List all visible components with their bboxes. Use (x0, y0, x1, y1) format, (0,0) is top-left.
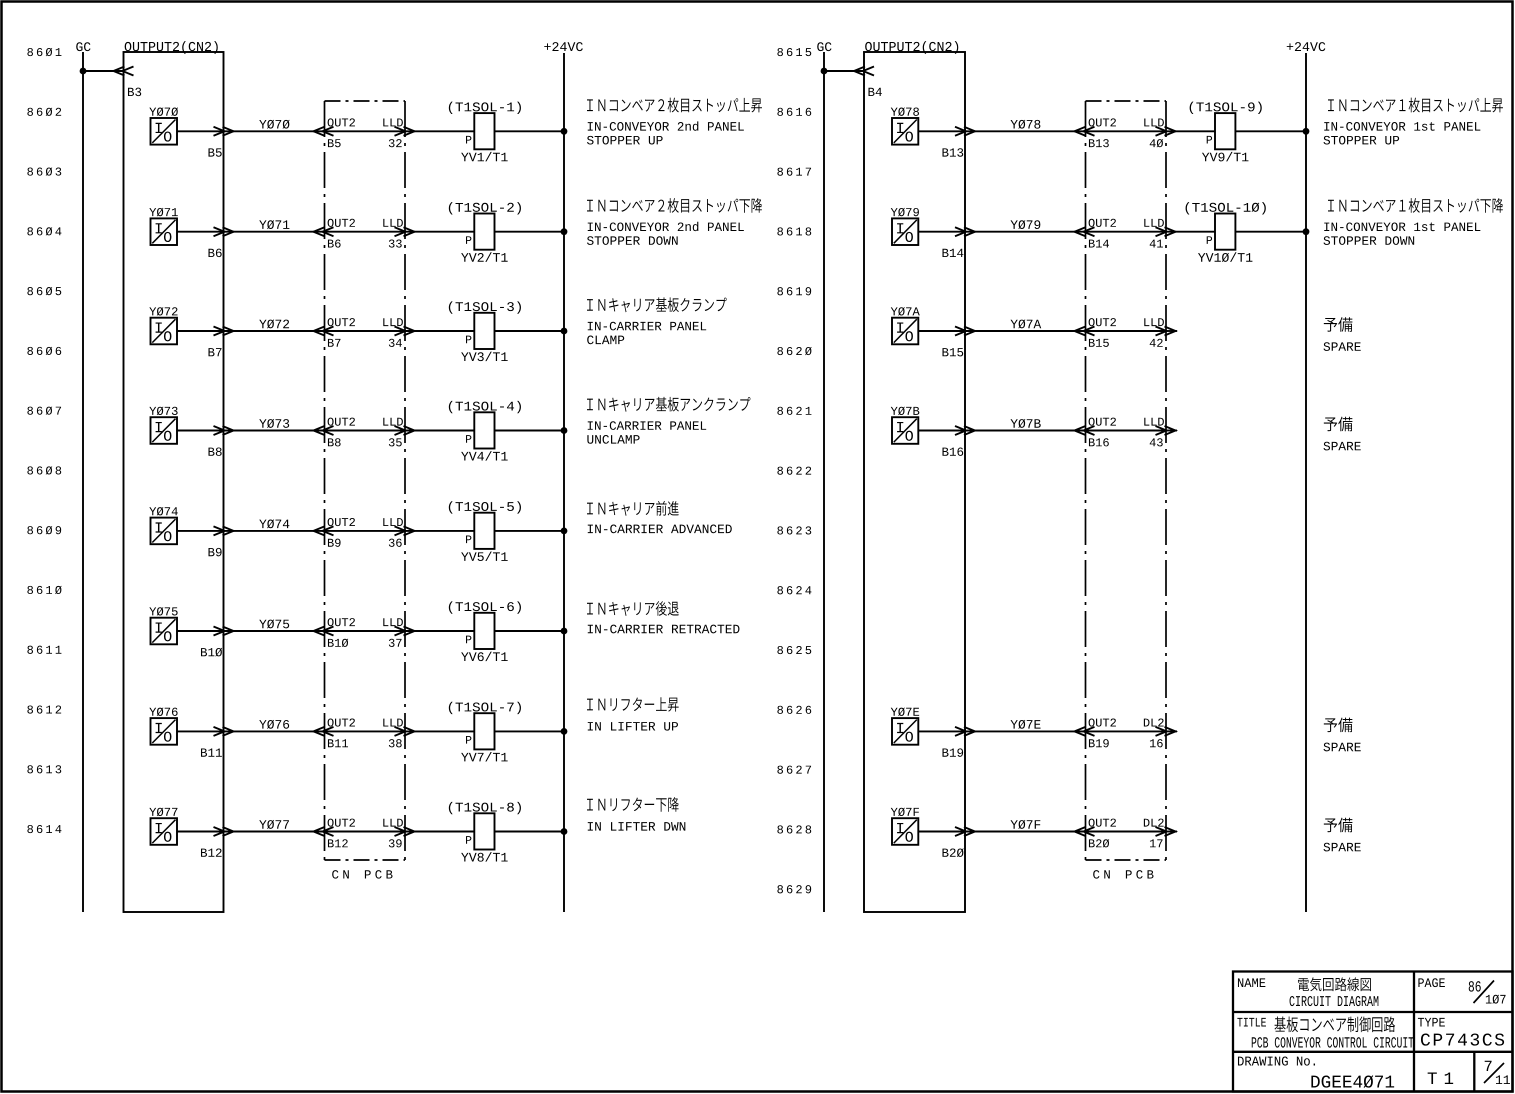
net label Y076 (259, 720, 266, 728)
output module Y07B (891, 407, 920, 444)
net label Y071 (259, 220, 266, 228)
CN PCB pin OUT2/B9 (314, 518, 355, 547)
output module Y074 (149, 507, 177, 544)
solenoid YV1/T1 (T1SOL-1) (449, 102, 521, 162)
line number column 8601-8614 (27, 48, 61, 833)
connector pin B14 arrow (942, 227, 975, 257)
net label Y070 (259, 120, 266, 128)
label IN LIFTER UP (Y076) (587, 697, 679, 730)
title block TYPE cell (1418, 1018, 1504, 1046)
net label Y07A (1010, 320, 1017, 328)
wire net Y073 to CN PCB (224, 430, 325, 432)
line number column 8615-8629 (777, 48, 811, 893)
wire LLD to solenoid YV2/T1 (405, 231, 474, 233)
+24VC rail (right) (1287, 42, 1326, 912)
CN PCB pin OUT2/B8 (314, 418, 355, 447)
net label Y07B (1010, 419, 1017, 427)
CN PCB pin OUT2/B16 (1075, 418, 1116, 447)
output module Y075 (149, 607, 177, 644)
CN PCB pin LLD/42 (1144, 318, 1175, 347)
connector pin B15 arrow (942, 327, 975, 357)
wire net Y072 to CN PCB (224, 330, 325, 332)
junction node YV3/T1 rail (561, 328, 568, 335)
net GC label (right) (817, 42, 831, 51)
wire net Y07B to CN PCB (965, 430, 1086, 432)
CN PCB pin OUT2/B12 (314, 819, 355, 848)
wire inside CN PCB row Y07A (1086, 330, 1167, 332)
net label Y072 (259, 320, 266, 328)
CN PCB pin OUT2/B6 (314, 219, 355, 248)
connector OUTPUT2(CN2) (left) (124, 41, 224, 912)
wire inside CN PCB row Y07F (1086, 831, 1167, 833)
wire net Y077 to CN PCB (224, 831, 325, 833)
net GC label (left) (76, 42, 90, 51)
wire LLD to solenoid YV10/T1 (1166, 231, 1215, 233)
wire Y077 module to connector edge (177, 831, 224, 833)
solenoid YV9/T1 (T1SOL-9) (1190, 102, 1262, 162)
junction node YV5/T1 rail (561, 528, 568, 535)
label IN-CARRIER RETRACTED (Y075) (587, 601, 739, 633)
wire Y07B module to connector edge (918, 430, 965, 432)
wire net Y074 to CN PCB (224, 530, 325, 532)
+24VC rail (left) (544, 42, 583, 912)
CN PCB pin OUT2/B13 (1075, 118, 1116, 147)
wire inside CN PCB row Y075 (325, 630, 406, 632)
wire net Y079 to CN PCB (965, 231, 1086, 233)
wire inside CN PCB row Y072 (325, 330, 406, 332)
label IN-CONVEYOR 1st PANEL (Y079) (1323, 198, 1503, 245)
CN PCB pin LLD/43 (1144, 418, 1175, 447)
connector pin B13 arrow (942, 127, 975, 157)
connector pin B10 arrow (201, 627, 234, 657)
wire LLD to solenoid YV7/T1 (405, 730, 474, 732)
net label Y075 (259, 620, 266, 628)
junction node YV1/T1 rail (561, 128, 568, 135)
wire Y075 module to connector edge (177, 630, 224, 632)
wire Y079 module to connector edge (918, 231, 965, 233)
title block TITLE cell (1237, 1017, 1413, 1048)
CN PCB pin LLD/34 (383, 318, 414, 347)
wire inside CN PCB row Y07B (1086, 430, 1167, 432)
wire net Y07A to CN PCB (965, 330, 1086, 332)
CN PCB dashed boundary (left) (325, 101, 406, 879)
wire stub after LLD pin (1166, 430, 1177, 432)
wire inside CN PCB row Y074 (325, 530, 406, 532)
label IN-CARRIER PANEL (Y073) (587, 397, 750, 444)
output module Y078 (891, 107, 919, 144)
junction node GC (right) (821, 68, 828, 75)
CN PCB pin DL2/16 (1144, 718, 1176, 747)
CN PCB pin OUT2/B14 (1075, 219, 1116, 248)
wire inside CN PCB row Y070 (325, 130, 406, 132)
output module Y07E (891, 708, 919, 745)
label SPARE (Y07F) (1323, 818, 1360, 852)
junction node YV6/T1 rail (561, 628, 568, 635)
CN PCB pin LLD/40 (1144, 118, 1175, 147)
wire Y072 module to connector edge (177, 330, 224, 332)
wire net Y071 to CN PCB (224, 231, 325, 233)
output module Y07A (891, 307, 920, 344)
output module Y07F (891, 808, 919, 845)
label IN-CONVEYOR 2nd PANEL (Y070) (587, 98, 762, 145)
CN PCB pin LLD/41 (1144, 219, 1175, 248)
wire GC to connector pin B3 (83, 70, 124, 72)
wire inside CN PCB row Y07E (1086, 730, 1167, 732)
wire net Y07F to CN PCB (965, 831, 1086, 833)
connector pin B11 arrow (201, 727, 234, 757)
junction node YV4/T1 rail (561, 427, 568, 434)
solenoid YV10/T1 (T1SOL-10) (1186, 202, 1266, 262)
solenoid YV8/T1 (T1SOL-8) (449, 802, 521, 862)
wire net Y07E to CN PCB (965, 730, 1086, 732)
wire Y076 module to connector edge (177, 730, 224, 732)
wire Y071 module to connector edge (177, 231, 224, 233)
wire net Y078 to CN PCB (965, 130, 1086, 132)
connector pin B4 arrow (854, 67, 882, 97)
output module Y076 (149, 708, 177, 745)
wire net Y070 to CN PCB (224, 130, 325, 132)
CN PCB pin OUT2/B10 (314, 618, 355, 647)
title block DRAWING No. cell (1238, 1056, 1394, 1087)
connector OUTPUT2(CN2) (right) (864, 41, 965, 912)
junction node YV7/T1 rail (561, 728, 568, 735)
CN PCB pin LLD/39 (383, 819, 414, 848)
wire Y07F module to connector edge (918, 831, 965, 833)
output module Y079 (891, 208, 919, 245)
output module Y070 (149, 107, 178, 144)
wire Y078 module to connector edge (918, 130, 965, 132)
wire solenoid YV6/T1 to +24VC rail (495, 630, 565, 632)
title block PAGE cell (1418, 978, 1505, 1003)
solenoid YV3/T1 (T1SOL-3) (449, 301, 521, 361)
output module Y073 (149, 407, 177, 444)
wire LLD to solenoid YV9/T1 (1166, 130, 1215, 132)
CN PCB pin OUT2/B20 (1075, 819, 1116, 848)
solenoid YV4/T1 (T1SOL-4) (449, 401, 521, 461)
wire LLD to solenoid YV5/T1 (405, 530, 474, 532)
wire GC bus vertical (right) (823, 52, 825, 912)
wire LLD to solenoid YV8/T1 (405, 831, 474, 833)
title block frame (1233, 972, 1513, 1092)
CN PCB pin OUT2/B11 (314, 718, 355, 747)
wire solenoid YV1/T1 to +24VC rail (495, 130, 565, 132)
wire solenoid YV8/T1 to +24VC rail (495, 831, 565, 833)
junction node GC (left) (80, 68, 87, 75)
solenoid YV6/T1 (T1SOL-6) (449, 601, 521, 661)
wire Y07A module to connector edge (918, 330, 965, 332)
label IN LIFTER DWN (Y077) (587, 797, 685, 831)
solenoid YV5/T1 (T1SOL-5) (449, 501, 521, 561)
wire GC bus vertical (left) (82, 52, 84, 912)
label SPARE (Y07B) (1323, 417, 1360, 451)
wire solenoid YV7/T1 to +24VC rail (495, 730, 565, 732)
wire stub after DL2 pin (1166, 831, 1177, 833)
wire inside CN PCB row Y076 (325, 730, 406, 732)
CN PCB dashed boundary (right) (1086, 101, 1167, 879)
connector pin B5 arrow (208, 127, 233, 157)
CN PCB pin LLD/33 (383, 219, 414, 248)
label SPARE (Y07E) (1323, 718, 1360, 752)
junction node YV10/T1 rail (1303, 228, 1310, 235)
CN PCB pin OUT2/B15 (1075, 318, 1116, 347)
label SPARE (Y07A) (1323, 317, 1360, 351)
label IN-CONVEYOR 1st PANEL (Y078) (1323, 98, 1502, 145)
wire Y070 module to connector edge (177, 130, 224, 132)
wire inside CN PCB row Y077 (325, 831, 406, 833)
wire LLD to solenoid YV4/T1 (405, 430, 474, 432)
wire Y073 module to connector edge (177, 430, 224, 432)
wire solenoid YV3/T1 to +24VC rail (495, 330, 565, 332)
wire stub after LLD pin (1166, 330, 1177, 332)
connector pin B8 arrow (208, 426, 233, 456)
wire net Y075 to CN PCB (224, 630, 325, 632)
wire inside CN PCB row Y073 (325, 430, 406, 432)
wire solenoid YV5/T1 to +24VC rail (495, 530, 565, 532)
wire solenoid YV9/T1 to +24VC rail (1235, 130, 1306, 132)
CN PCB pin DL2/17 (1144, 819, 1176, 848)
net label Y078 (1010, 120, 1017, 128)
label IN-CONVEYOR 2nd PANEL (Y071) (587, 198, 762, 245)
connector pin B6 arrow (208, 227, 233, 257)
junction node YV2/T1 rail (561, 228, 568, 235)
wire inside CN PCB row Y071 (325, 231, 406, 233)
wire GC to connector pin B4 (824, 70, 864, 72)
wire solenoid YV2/T1 to +24VC rail (495, 231, 565, 233)
wire LLD to solenoid YV3/T1 (405, 330, 474, 332)
connector pin B16 arrow (942, 426, 975, 456)
wire Y074 module to connector edge (177, 530, 224, 532)
connector pin B7 arrow (208, 327, 233, 357)
connector pin B12 arrow (201, 827, 234, 857)
net label Y079 (1010, 220, 1017, 228)
wire inside CN PCB row Y078 (1086, 130, 1167, 132)
title block sheet T1 cell (1428, 1072, 1454, 1084)
net label Y07E (1010, 720, 1017, 728)
connector pin B20 arrow (942, 827, 975, 857)
CN PCB pin OUT2/B5 (314, 118, 355, 147)
CN PCB pin OUT2/B7 (314, 318, 355, 347)
label IN-CARRIER ADVANCED (Y074) (587, 501, 732, 533)
junction node YV9/T1 rail (1303, 128, 1310, 135)
CN PCB pin LLD/36 (383, 518, 414, 547)
CN PCB pin LLD/37 (383, 618, 414, 647)
title block sheet 7/11 cell (1484, 1061, 1510, 1084)
output module Y077 (149, 808, 177, 845)
wire LLD to solenoid YV1/T1 (405, 130, 474, 132)
connector pin B3 arrow (114, 67, 142, 97)
CN PCB pin LLD/32 (383, 118, 414, 147)
output module Y071 (149, 208, 177, 245)
net label Y074 (259, 520, 266, 528)
label IN-CARRIER PANEL (Y072) (587, 297, 727, 344)
title block NAME cell (1238, 977, 1378, 1006)
wire net Y076 to CN PCB (224, 730, 325, 732)
wire solenoid YV10/T1 to +24VC rail (1235, 231, 1306, 233)
wire LLD to solenoid YV6/T1 (405, 630, 474, 632)
connector pin B19 arrow (942, 727, 975, 757)
CN PCB pin LLD/38 (383, 719, 414, 748)
solenoid YV7/T1 (T1SOL-7) (449, 702, 521, 762)
solenoid YV2/T1 (T1SOL-2) (449, 202, 521, 262)
net label Y073 (259, 419, 266, 427)
wire solenoid YV4/T1 to +24VC rail (495, 430, 565, 432)
connector pin B9 arrow (208, 526, 233, 556)
junction node YV8/T1 rail (561, 828, 568, 835)
wire inside CN PCB row Y079 (1086, 231, 1167, 233)
net label Y077 (259, 820, 266, 828)
wire Y07E module to connector edge (918, 730, 965, 732)
wire stub after DL2 pin (1166, 730, 1177, 732)
net label Y07F (1010, 820, 1017, 828)
CN PCB pin OUT2/B19 (1075, 718, 1116, 747)
CN PCB pin LLD/35 (383, 418, 414, 447)
output module Y072 (149, 307, 177, 344)
